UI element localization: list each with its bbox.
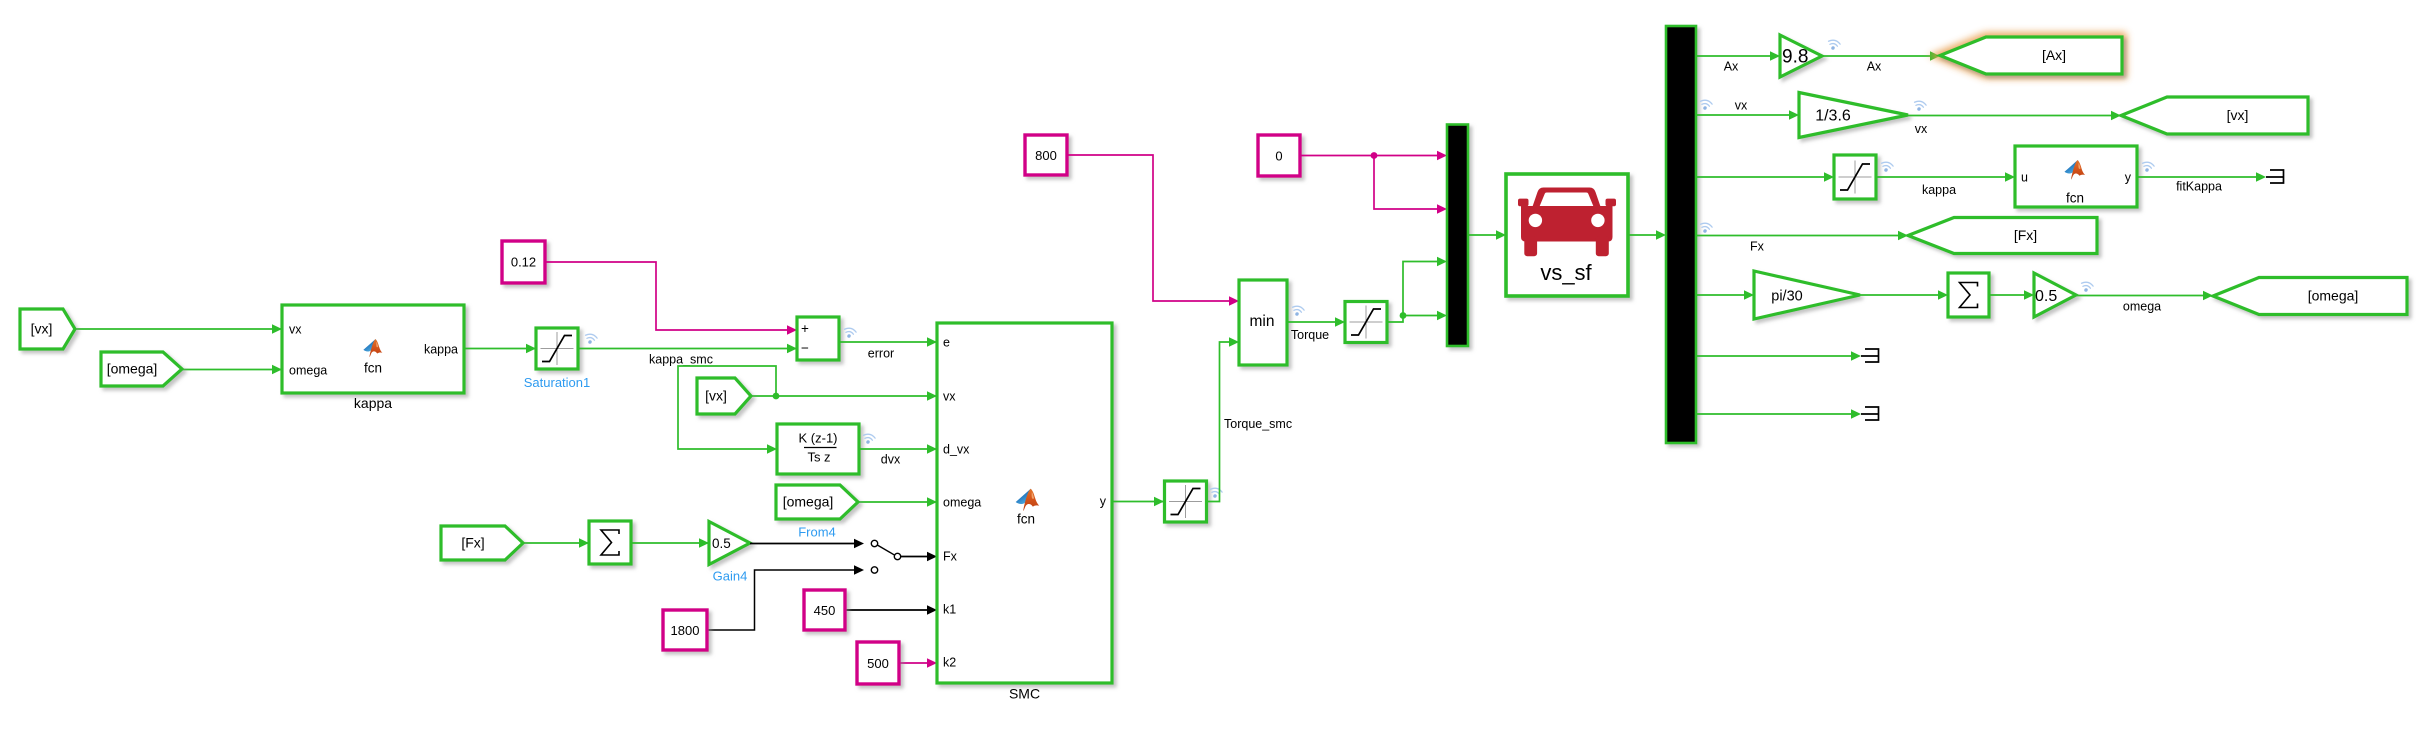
manual switch output contact [894, 553, 900, 559]
Gain 9.8 [1780, 35, 1822, 77]
wire [omega] to SMC/omega [858, 501, 937, 503]
svg-text:omega: omega [289, 364, 327, 378]
svg-text:omega: omega [943, 496, 981, 510]
Sum of Elements block (sigma2) [1948, 273, 1989, 317]
From tag [omega] (From4) [776, 485, 858, 519]
svg-text:+: + [801, 321, 809, 336]
wire Demux1 to Gain 9.8 [1696, 55, 1770, 57]
Demux block [1666, 26, 1696, 443]
svg-text:Torque_smc: Torque_smc [1224, 417, 1292, 431]
magenta wire 800 to min [1067, 155, 1229, 301]
svg-text:omega: omega [2123, 300, 2161, 314]
Gain 0.5 (right) [2034, 273, 2076, 317]
svg-text:d_vx: d_vx [943, 443, 970, 457]
From tag [vx] [20, 309, 75, 349]
svg-text:1800: 1800 [671, 623, 700, 638]
MinMax block min [1239, 280, 1287, 365]
Terminator1 [1861, 349, 1879, 362]
svg-text:[vx]: [vx] [705, 388, 727, 404]
constant 800 [1025, 135, 1067, 175]
svg-text:kappa: kappa [354, 395, 392, 411]
From tag [Fx] [441, 526, 523, 560]
svg-text:min: min [1250, 313, 1275, 330]
svg-text:u: u [2021, 171, 2028, 185]
svg-text:0.12: 0.12 [511, 255, 536, 270]
manual switch lever [877, 545, 894, 555]
svg-text:1/3.6: 1/3.6 [1815, 108, 1851, 125]
svg-text:k1: k1 [943, 603, 956, 617]
svg-text:From4: From4 [798, 525, 836, 540]
svg-text:Ax: Ax [1724, 60, 1739, 74]
svg-text:dvx: dvx [881, 453, 901, 467]
svg-text:0.5: 0.5 [2035, 288, 2057, 305]
black wire 1800 to switch lower contact [707, 570, 854, 630]
red car icon [1518, 188, 1616, 257]
svg-text:[Fx]: [Fx] [2014, 227, 2037, 243]
svg-text:−: − [801, 340, 809, 355]
wire kappa to Saturation1 [464, 348, 536, 350]
svg-text:error: error [868, 347, 894, 361]
junction node on 0 wire [1371, 152, 1378, 159]
wire Demux5 to Gain pi/30 [1696, 294, 1744, 296]
svg-text:Ax: Ax [1867, 60, 1882, 74]
logging badge [2080, 281, 2094, 293]
wire [vx] to kappa/vx [75, 328, 282, 330]
svg-text:y: y [2125, 171, 2132, 185]
logging badge [2141, 161, 2155, 173]
MATLAB Function block kappa [282, 305, 464, 393]
svg-text:Ts z: Ts z [807, 450, 830, 465]
Goto tag [vx] [2121, 97, 2308, 134]
wire omega: 0.5 to Goto [omega] [2076, 295, 2203, 297]
svg-text:K (z-1): K (z-1) [799, 431, 838, 446]
svg-text:Saturation1: Saturation1 [524, 375, 591, 390]
wire vs_sf to Demux [1628, 234, 1656, 236]
wire 0.12 to Sum plus [545, 262, 787, 330]
junction node after Saturation3 [1400, 312, 1407, 319]
svg-text:vx: vx [943, 390, 956, 404]
svg-text:[omega]: [omega] [783, 494, 834, 510]
Goto tag [Ax] highlighted [1940, 37, 2122, 74]
svg-text:pi/30: pi/30 [1771, 289, 1802, 305]
Gain 1/3.6 [1799, 93, 1908, 138]
black wire switch to SMC/Fx [901, 556, 927, 558]
wire Torque: min to Saturation3 [1287, 321, 1335, 323]
manual switch upper contact [871, 540, 877, 546]
svg-text:[vx]: [vx] [31, 321, 53, 337]
wire Demux7 to Terminator2 [1696, 413, 1851, 415]
logging badge [1699, 222, 1713, 234]
wire sum to Gain4 [631, 542, 709, 544]
wire [vx] to SMC/vx [751, 395, 937, 397]
svg-text:fcn: fcn [2066, 191, 2084, 206]
logging badge [1699, 99, 1713, 111]
constant 450 [804, 590, 845, 630]
svg-text:0.5: 0.5 [712, 536, 731, 551]
Terminator2 [1861, 407, 1879, 420]
logging badge [1827, 39, 1841, 51]
wire dvx: derivative to SMC/d_vx [859, 448, 937, 450]
svg-text:Torque: Torque [1291, 328, 1329, 342]
magenta wire 500 to SMC/k2 [899, 662, 927, 664]
Sum of Elements block (sigma) [589, 521, 631, 564]
logging badge [1291, 305, 1305, 317]
svg-text:vx: vx [289, 323, 302, 337]
wire Torque_smc: Saturation2 to min [1207, 342, 1229, 502]
svg-text:y: y [1100, 495, 1107, 509]
From tag [vx] (second) [697, 378, 751, 414]
wire Demux6 to Terminator1 [1696, 355, 1851, 357]
svg-text:450: 450 [814, 603, 836, 618]
svg-text:fcn: fcn [1017, 512, 1035, 527]
Sum (Subtract) block [797, 317, 839, 360]
svg-text:kappa_smc: kappa_smc [649, 353, 713, 367]
wire fitKappa to Terminator [2137, 176, 2256, 178]
svg-text:500: 500 [867, 656, 889, 671]
Gain4 0.5 triangle [709, 522, 750, 565]
logging badge [1880, 161, 1894, 173]
wire [omega] to kappa/omega [182, 369, 282, 371]
Mux block [1447, 125, 1468, 347]
svg-text:0: 0 [1275, 149, 1282, 164]
logging badge [1913, 100, 1927, 112]
logging badge [1209, 487, 1223, 499]
black wire Gain4 to manual switch [750, 543, 854, 545]
magenta wire 0 to Mux port1 [1300, 155, 1437, 157]
wire kappa_smc: Saturation1 to Sum minus [578, 348, 797, 350]
wire Demux3 to Saturation4 [1696, 176, 1824, 178]
svg-text:[Ax]: [Ax] [2042, 47, 2066, 63]
wire kappa: Saturation4 to fcn [1876, 176, 2005, 178]
wire Saturation3 to Mux port4 [1387, 316, 1437, 323]
Goto tag [omega] [2213, 278, 2407, 315]
wire [Fx] to Sum of Elements [523, 542, 589, 544]
wire Mux to vs_sf [1468, 234, 1496, 236]
svg-text:vx: vx [1915, 122, 1928, 136]
wire Demux4 to Goto [Fx] [1696, 235, 1898, 237]
svg-text:SMC: SMC [1009, 686, 1040, 702]
wire SMC/y to Saturation2 [1112, 501, 1164, 503]
svg-text:kappa: kappa [1922, 183, 1956, 197]
constant 1800 [663, 610, 707, 650]
Saturation1 block [536, 328, 578, 369]
Goto tag [Fx] [1908, 218, 2097, 254]
svg-text:Fx: Fx [1750, 240, 1765, 254]
wire branch vx to Discrete Derivative [678, 366, 776, 449]
wire error: Sum to SMC/e [839, 341, 937, 343]
wire 9.8 to Goto [Ax] [1822, 55, 1930, 57]
wire sigma2 to Gain 0.5 [1989, 294, 2024, 296]
logging badge [584, 333, 598, 345]
svg-text:fcn: fcn [364, 361, 382, 376]
svg-text:k2: k2 [943, 656, 956, 670]
From tag [omega] [101, 352, 182, 386]
svg-text:9.8: 9.8 [1782, 47, 1808, 68]
MATLAB Function block SMC [937, 323, 1112, 683]
svg-text:vx: vx [1735, 99, 1748, 113]
svg-text:fitKappa: fitKappa [2176, 180, 2222, 194]
svg-text:e: e [943, 336, 950, 350]
svg-text:800: 800 [1035, 148, 1057, 163]
magenta branch to Mux port2 [1374, 156, 1437, 210]
Discrete Derivative block K(z-1)/Ts z [777, 424, 859, 474]
svg-text:[omega]: [omega] [107, 361, 158, 377]
svg-text:[Fx]: [Fx] [461, 535, 484, 551]
constant 500 [857, 642, 899, 684]
Terminator (fitKappa) [2266, 170, 2284, 183]
Saturation4 block [1834, 155, 1876, 199]
svg-text:kappa: kappa [424, 343, 458, 357]
wire pi/30 to Sum of Elements [1860, 294, 1938, 296]
logging badge [843, 327, 857, 339]
constant 0 [1258, 135, 1300, 176]
Gain pi/30 [1754, 271, 1860, 319]
branch to Mux port3 [1403, 262, 1437, 316]
logging badge [862, 433, 876, 445]
black wire 450 to SMC/k1 [845, 609, 927, 611]
svg-text:Gain4: Gain4 [713, 569, 748, 584]
MATLAB Function block fitKappa fcn [2015, 146, 2137, 207]
Saturation2 block [1165, 481, 1207, 522]
Subsystem block vs_sf [1506, 174, 1628, 296]
junction node on vx wire [773, 393, 780, 400]
constant 0.12 [502, 241, 545, 283]
svg-text:Fx: Fx [943, 550, 958, 564]
svg-text:[omega]: [omega] [2308, 288, 2359, 304]
Saturation3 block [1345, 302, 1387, 343]
svg-text:[vx]: [vx] [2227, 107, 2249, 123]
wire 1/3.6 to Goto [vx] [1908, 115, 2111, 117]
wire Demux2 to Gain 1/3.6 [1696, 114, 1789, 116]
svg-text:vs_sf: vs_sf [1540, 260, 1592, 285]
